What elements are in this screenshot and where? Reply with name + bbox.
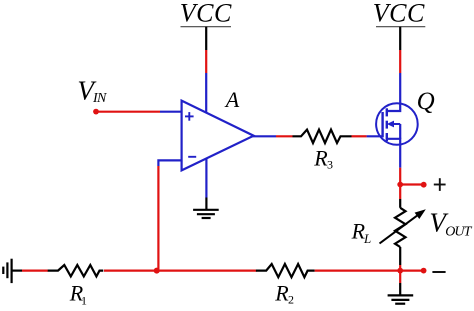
wire RL bottom (black) bbox=[399, 247, 401, 265]
wire VCC left to op-amp top (blue segment) bbox=[205, 73, 207, 113]
wire RL bottom to junction (red) bbox=[399, 265, 401, 271]
wire VIN to op-amp + input (red) bbox=[96, 111, 160, 113]
wire R2 to output junction (red) bbox=[315, 270, 401, 272]
svg-text:VCC: VCC bbox=[373, 0, 425, 28]
svg-text:1: 1 bbox=[81, 294, 87, 308]
label R1 bbox=[69, 281, 87, 308]
wire op-amp minus input feedback (blue) bbox=[158, 160, 181, 166]
wire R3 to MOSFET gate (blue) bbox=[367, 135, 383, 137]
wire source down (blue) bbox=[399, 144, 401, 168]
svg-text:L: L bbox=[363, 231, 371, 246]
wire + junction to RL (red) bbox=[399, 185, 401, 200]
wire junction to R2 (red) bbox=[157, 270, 257, 272]
node junction at - terminal bbox=[397, 268, 403, 274]
wire VCC left to op-amp top (black segment) bbox=[205, 27, 207, 50]
transistor Q drain connection bbox=[387, 103, 400, 111]
wire R1 to feedback junction (red) bbox=[104, 270, 157, 272]
power rail VCC (right) bar bbox=[376, 26, 425, 28]
node junction at + terminal bbox=[397, 182, 403, 188]
svg-text:VCC: VCC bbox=[180, 0, 232, 28]
wire feedback vertical (red) bbox=[157, 166, 159, 271]
wire stub to - terminal (red) bbox=[400, 270, 423, 272]
wire op-amp bottom to ground (black) bbox=[205, 198, 207, 210]
wire source down (red) bbox=[399, 168, 401, 185]
wire VCC left to op-amp top (red segment) bbox=[205, 50, 207, 73]
label R2 bbox=[274, 281, 294, 307]
wire VCC right to drain (red segment) bbox=[399, 50, 401, 73]
label - (output polarity) bbox=[432, 271, 445, 273]
node + terminal dot bbox=[421, 182, 427, 188]
label + (output polarity) bbox=[434, 178, 446, 191]
wire - junction to ground (black) bbox=[399, 283, 401, 295]
transistor Q channel segments bbox=[386, 108, 388, 141]
resistor R2 bbox=[256, 264, 315, 277]
node VIN terminal dot bbox=[93, 109, 99, 115]
op-amp A plus input marking bbox=[185, 112, 194, 121]
wire ground to R1 (red) bbox=[22, 270, 48, 272]
wire ground to R1 (black stub) bbox=[12, 270, 22, 272]
wire R3 to MOSFET gate (red) bbox=[352, 135, 367, 137]
svg-text:2: 2 bbox=[288, 293, 294, 307]
resistor R1 bbox=[48, 265, 104, 276]
wire stub to + terminal (red) bbox=[400, 183, 424, 185]
wire VCC right to drain (black segment) bbox=[399, 27, 401, 50]
transistor Q source connection bbox=[387, 139, 400, 145]
resistor R3 bbox=[293, 130, 352, 143]
node feedback junction bbox=[154, 268, 160, 274]
resistor RL (variable) zigzag bbox=[395, 208, 406, 247]
transistor Q gate bar bbox=[381, 112, 383, 137]
ground bottom left (sideways) bbox=[3, 259, 11, 283]
transistor Q body arrow bbox=[387, 121, 400, 128]
transistor Q (NMOS) body circle bbox=[376, 103, 418, 145]
wire - junction to ground (red) bbox=[399, 271, 401, 283]
svg-text:IN: IN bbox=[92, 91, 107, 106]
svg-text:3: 3 bbox=[327, 158, 333, 172]
wire VIN to op-amp + input (blue stub) bbox=[160, 111, 181, 113]
ground bottom right bbox=[388, 295, 414, 303]
svg-text:Q: Q bbox=[417, 88, 435, 115]
wire op-amp bottom to ground (blue) bbox=[205, 159, 207, 198]
op-amp A minus input marking bbox=[188, 156, 196, 158]
wire op-amp output (blue stub) bbox=[252, 135, 276, 137]
label R3 bbox=[313, 146, 333, 172]
svg-text:OUT: OUT bbox=[445, 225, 472, 240]
wire op-amp output to R3 (red) bbox=[276, 135, 293, 137]
power rail VCC (left) bar bbox=[181, 26, 232, 28]
resistor RL variable arrow bbox=[380, 209, 426, 243]
label VIN bbox=[77, 75, 107, 106]
wire + junction to RL (black) bbox=[399, 199, 401, 208]
transistor Q body-source tie bbox=[399, 124, 401, 139]
wire VCC right to drain (blue segment) bbox=[399, 73, 401, 104]
node - terminal dot bbox=[421, 268, 427, 274]
ground under op-amp bbox=[193, 210, 219, 218]
op-amp A triangle bbox=[182, 101, 254, 171]
label VOUT bbox=[429, 208, 472, 240]
label RL bbox=[351, 219, 372, 246]
svg-text:A: A bbox=[224, 87, 240, 112]
